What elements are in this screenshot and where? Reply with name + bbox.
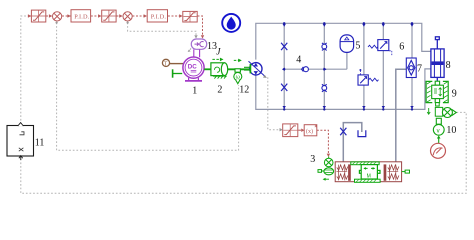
- motor mount bracket: [185, 78, 202, 81]
- svg-text:3: 3: [310, 154, 315, 165]
- svg-text:9: 9: [452, 89, 457, 100]
- wire: fx out to valve driver 3: [317, 130, 329, 155]
- lower relief valve: [358, 69, 378, 85]
- shaft load 2 to pump: [228, 68, 250, 70]
- command dial gauge: [431, 143, 446, 158]
- svg-text:ω: ω: [236, 75, 241, 81]
- summing junction X2: [123, 12, 132, 21]
- valve right port: [402, 171, 405, 173]
- tank symbol: [358, 130, 366, 136]
- cylinder 8: [431, 37, 444, 78]
- pump 14 (variable displacement): [250, 63, 262, 75]
- orifice lower: [281, 84, 287, 91]
- orifice on valve drain line: [340, 128, 346, 135]
- svg-text:12: 12: [239, 85, 249, 96]
- svg-text:8: 8: [446, 60, 451, 71]
- arrow into fx: [301, 129, 304, 132]
- accumulator 5: [340, 35, 354, 53]
- fluid properties icon: [222, 14, 240, 32]
- summing junction X1: [53, 12, 62, 21]
- shaft T to motor: [170, 63, 184, 65]
- wire: motor leads from 13 down to DC motor: [194, 49, 200, 57]
- gain block fx: [304, 125, 317, 136]
- shaft motor to load 2: [204, 68, 211, 70]
- pipe: orifice branch: [283, 23, 285, 109]
- speed arrow over shaft: [234, 59, 240, 61]
- spool position arrow: [324, 178, 329, 180]
- svg-text:5: 5: [355, 41, 360, 52]
- signal source block 11: [7, 123, 34, 160]
- wire: command dashed from source 11 up left side to block A input: [21, 16, 30, 124]
- svg-text:1: 1: [192, 86, 197, 97]
- motor reaction mount (green flange): [173, 69, 183, 77]
- valve center green frame top: [351, 162, 379, 165]
- torque sensor T: [162, 59, 169, 66]
- svg-text:4: 4: [296, 55, 301, 66]
- junction arrows mid line: [282, 68, 327, 71]
- svg-text:DC: DC: [188, 63, 197, 70]
- check valve 4 on mid line: [302, 67, 309, 72]
- valve left springs: [336, 165, 347, 181]
- pipe: bottom bus: [256, 69, 431, 110]
- junction arrows bottom bus: [283, 106, 414, 111]
- arrowheads red chain: [28, 14, 204, 38]
- svg-text:11: 11: [35, 137, 45, 148]
- pipe: meter 7 branch: [411, 23, 413, 109]
- DC motor 1: [183, 57, 204, 78]
- valve left port: [322, 170, 325, 172]
- orifice upper: [281, 43, 287, 50]
- PID controller 1: [71, 10, 91, 22]
- wire: red chain arrows style: [30, 16, 203, 38]
- junction arrows top bus: [283, 22, 414, 27]
- saturation block C: [183, 11, 197, 22]
- pipe: pump discharge mid line: [284, 68, 347, 70]
- pipe: valve right port up to meter 7: [396, 69, 407, 161]
- pipe: valve left port up through orifice to tank: [343, 123, 362, 162]
- saturation block B: [102, 10, 116, 22]
- pipe: check valve branch: [323, 23, 325, 109]
- arrow gauge to 10: [438, 138, 440, 144]
- wire: position feedback loop right side and bottom to source 11: [21, 112, 466, 193]
- pipe: accumulator stem: [346, 52, 348, 69]
- check valve lower: [322, 84, 327, 92]
- svg-text:2: 2: [217, 85, 222, 96]
- check valve upper: [322, 43, 327, 51]
- mass with stops 9: [426, 81, 448, 102]
- valve right springs: [387, 165, 398, 181]
- pump shaft flange: [249, 64, 251, 74]
- stub: converter 13 measurement tap: [188, 49, 191, 52]
- arrow into saturation: [280, 128, 283, 131]
- valve right divider: [384, 164, 387, 180]
- svg-text:(x): (x): [306, 128, 313, 135]
- pipe: top bus: [256, 23, 431, 59]
- node: junction dot under X2: [127, 22, 129, 24]
- flow meter 7: [406, 58, 416, 78]
- svg-text:10: 10: [446, 125, 456, 136]
- red function row: saturation: [283, 124, 298, 137]
- servo valve body: [335, 162, 401, 182]
- svg-text:7: 7: [417, 64, 422, 75]
- wire: pump swashplate tap down to red function row: [268, 77, 282, 130]
- speed arrow over load 2: [212, 58, 221, 60]
- valve center green frame bottom: [355, 179, 381, 182]
- speed sensor 12: [234, 69, 242, 84]
- wire: current feedback from converter 13 to junction X2: [128, 23, 196, 38]
- svg-text:M: M: [367, 173, 371, 179]
- valve left divider: [348, 164, 351, 180]
- wire: speed feedback from sensor 12 to junction X1: [57, 23, 239, 151]
- solenoid actuator: [324, 168, 334, 175]
- valve pilot motor M box: [359, 165, 380, 179]
- saturation block A: [31, 10, 45, 22]
- node: junction dot under X1: [56, 22, 58, 24]
- pipe: lower relief branch: [363, 23, 365, 109]
- pipe: relief valve 6 branch: [382, 23, 384, 109]
- svg-text:6: 6: [399, 42, 404, 53]
- svg-text:P.I.D.: P.I.D.: [74, 14, 90, 21]
- PID controller 2: [147, 10, 167, 22]
- pump shaft green: [244, 67, 250, 70]
- relief valve 6: [368, 40, 392, 56]
- position transducer row under 9: [427, 103, 442, 117]
- velocity sensor 10: [433, 118, 444, 135]
- rotary load 2: [211, 63, 228, 76]
- svg-text:P.I.D.: P.I.D.: [151, 14, 167, 21]
- svg-text:v: v: [437, 128, 440, 134]
- signal converter 13: [191, 39, 206, 49]
- load base hatch: [213, 76, 227, 78]
- valve driver 3 (multiplier): [324, 157, 333, 167]
